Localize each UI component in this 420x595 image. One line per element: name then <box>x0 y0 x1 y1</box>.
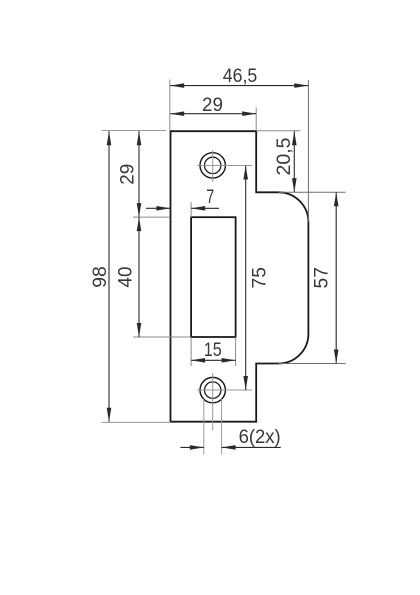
dimension 7 <box>146 186 219 217</box>
dimension 29 top <box>170 94 256 131</box>
dimension 46,5 <box>170 65 309 222</box>
svg-text:7: 7 <box>206 186 214 208</box>
centerline bottom hole vertical <box>212 373 214 430</box>
screw hole top outer <box>200 153 225 178</box>
dimension 57 <box>279 192 346 363</box>
dimension 29 left <box>117 131 142 217</box>
svg-text:15: 15 <box>204 339 222 361</box>
screw hole bottom outer <box>200 377 225 402</box>
svg-text:20,5: 20,5 <box>273 137 295 175</box>
svg-text:46,5: 46,5 <box>223 65 258 87</box>
svg-text:57: 57 <box>311 267 333 289</box>
dimension 75 <box>197 166 270 391</box>
centerline top hole vertical <box>212 150 214 182</box>
dimension 6(2x) <box>180 399 280 455</box>
screw hole top inner <box>205 157 221 173</box>
screw hole bottom inner <box>205 382 221 398</box>
latch slot cutout <box>191 217 236 337</box>
strike plate outline <box>171 131 309 422</box>
dimension 15 <box>191 337 236 366</box>
svg-text:40: 40 <box>115 266 137 287</box>
svg-text:98: 98 <box>89 266 111 288</box>
dimension 20,5 <box>256 131 300 193</box>
svg-text:75: 75 <box>248 267 270 289</box>
svg-text:29: 29 <box>117 164 139 185</box>
dimension 98 <box>89 131 171 423</box>
dimension 40 <box>115 217 190 337</box>
svg-text:29: 29 <box>202 94 223 116</box>
svg-text:6(2x): 6(2x) <box>239 426 281 448</box>
